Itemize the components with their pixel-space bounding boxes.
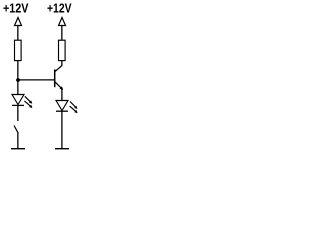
- LED D1 (left): [12, 95, 24, 106]
- resistor R1 (left): [15, 40, 22, 60]
- wire: LED2 to bottom terminal: [61, 111, 63, 149]
- transistor Q1 emitter lead with arrow: [55, 82, 63, 90]
- svg-text:+12V: +12V: [47, 1, 72, 15]
- wire: emitter to LED2: [61, 89, 63, 101]
- node A junction dot: [16, 78, 20, 82]
- LED D2 emission arrows: [70, 102, 78, 114]
- wire: switch to bottom terminal: [17, 133, 19, 149]
- wire: R1 to node A: [17, 61, 19, 80]
- wire: node A to LED1: [17, 80, 19, 95]
- wire: R2 to collector: [61, 61, 63, 66]
- svg-text:+12V: +12V: [3, 1, 29, 15]
- power symbol +12V arrow (left): [15, 18, 22, 26]
- ground terminal bar (right): [55, 148, 69, 150]
- LED D1 emission arrows: [24, 96, 32, 108]
- switch S1 blade: [14, 126, 18, 134]
- wire: left supply to R1: [17, 26, 19, 41]
- power symbol +12V arrow (right): [59, 18, 66, 26]
- wire: node A to transistor base: [18, 79, 55, 81]
- wire: right supply to R2: [61, 26, 63, 41]
- transistor Q1 base bar: [54, 69, 56, 87]
- transistor Q1 collector lead: [55, 66, 62, 72]
- ground terminal bar (left): [11, 148, 25, 150]
- resistor R2 (right): [59, 40, 66, 60]
- wire: LED1 to switch S1: [17, 106, 19, 122]
- LED D2 (right): [56, 101, 68, 112]
